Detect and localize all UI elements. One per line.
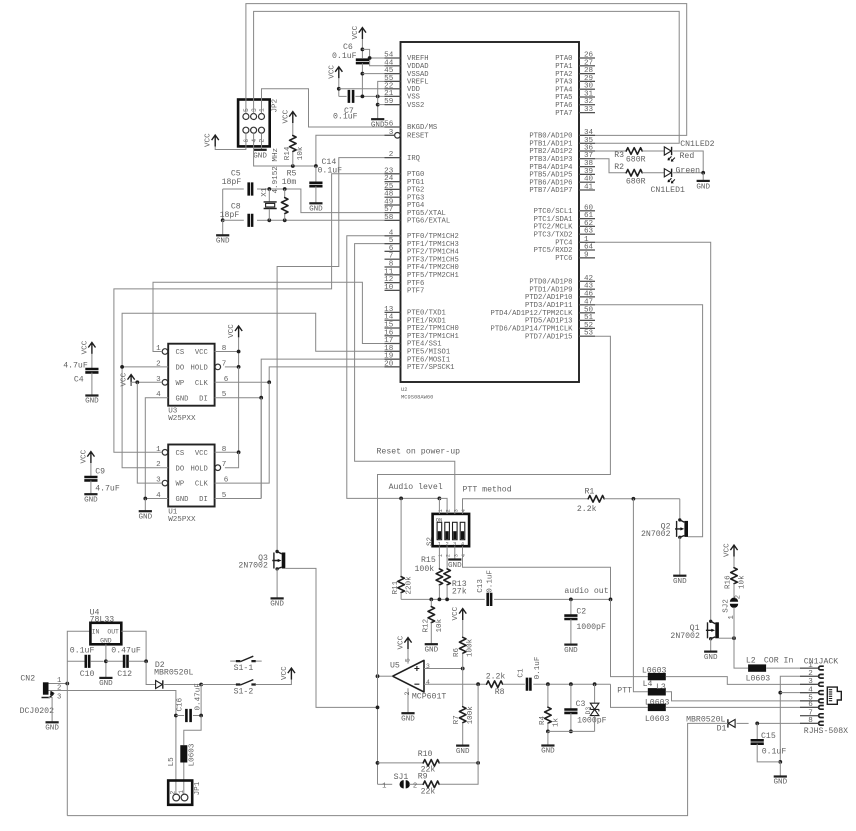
junction COR node (732, 636, 736, 640)
wire green LED cathode to gnd (673, 172, 703, 174)
svg-text:HOLD: HOLD (191, 365, 208, 373)
wire C1 output node (533, 683, 610, 685)
capacitor C7 0.1uF (338, 78, 340, 96)
svg-text:2.2k: 2.2k (486, 672, 506, 682)
svg-text:100k: 100k (467, 706, 475, 725)
CN1JACK pin 2 contact (800, 675, 819, 677)
svg-text:0.47uF: 0.47uF (111, 646, 141, 655)
solder jumper SJ2 (730, 598, 738, 608)
wire JP2 pin4 to reset node (254, 133, 316, 166)
VCC symbol above C9 (87, 452, 94, 463)
wire COR node to L2 (734, 638, 748, 668)
capacitor C6 0.1uF (361, 39, 363, 58)
wire Q1 drain to COR node (719, 637, 734, 639)
JP1 pin1 circle (181, 794, 188, 801)
svg-text:2: 2 (404, 692, 411, 696)
wire VREFL to ground net (378, 81, 385, 96)
svg-text:VCC: VCC (228, 324, 236, 338)
svg-text:PTD5/AD1P13: PTD5/AD1P13 (525, 318, 572, 326)
svg-text:4: 4 (251, 139, 258, 143)
wire audio rail to L4 (611, 599, 648, 676)
connector CN2 DCJ0202 (43, 682, 49, 694)
transistor Q1 2N7002 (706, 620, 719, 641)
wire PTF1 reset-on-powerup to S2 pin3 (355, 244, 455, 514)
svg-text:S1-1: S1-1 (234, 664, 254, 673)
wire U1 DI up to DI junction (260, 398, 262, 499)
wire VCC jog to VDDAD (362, 49, 384, 65)
svg-text:R4: R4 (539, 715, 547, 725)
wire U3 DO to MISO net (122, 366, 168, 368)
ground below Q3 (271, 597, 284, 599)
flash memory U1 W25PXX (168, 445, 214, 507)
wire U4 OUT (121, 631, 146, 661)
svg-text:MC9S08AW60: MC9S08AW60 (401, 395, 433, 401)
svg-text:680R: 680R (626, 156, 646, 165)
ground below C8 (216, 234, 229, 236)
wire L4 to jack pin3 (666, 677, 818, 685)
svg-text:PTB6/AD1P6: PTB6/AD1P6 (529, 179, 572, 187)
wire op-amp output (378, 675, 393, 677)
ground below U4 (99, 677, 112, 679)
junction VSS2 (376, 103, 380, 107)
svg-text:1: 1 (259, 108, 266, 112)
svg-text:1: 1 (728, 615, 736, 619)
wire MISO net U1 DO to PTE5 (122, 313, 400, 468)
svg-text:L0603: L0603 (746, 674, 771, 683)
VCC symbol above U3 pin8 (235, 326, 242, 337)
svg-text:0.1uF: 0.1uF (332, 52, 357, 61)
resistor R15 100k (436, 569, 443, 585)
junction U4 GND / caps (104, 659, 108, 663)
svg-text:C4: C4 (74, 376, 84, 385)
svg-text:CN1JACK: CN1JACK (804, 657, 838, 666)
U3 HOLD inversion circle (215, 364, 221, 370)
inductor L4 body (648, 673, 666, 680)
wire to C7 left (339, 95, 347, 97)
svg-text:PTE2/TPM1CH0: PTE2/TPM1CH0 (407, 325, 459, 333)
svg-text:PTC1/SDA1: PTC1/SDA1 (534, 216, 573, 224)
wire jack pin4 to ground net (780, 692, 817, 694)
svg-text:3: 3 (57, 693, 61, 701)
resistor R5 10m (284, 189, 286, 198)
svg-text:PTF1/TPM1CH3: PTF1/TPM1CH3 (407, 241, 459, 249)
svg-text:5: 5 (243, 108, 250, 112)
VCC symbol above VDD (335, 67, 342, 78)
wire SS1 net to U3 CS (153, 282, 401, 351)
wire PTC4 to Q1 (595, 242, 711, 621)
wire VCC down to U3 HOLD (238, 337, 240, 367)
wire S2 pin1 stub (438, 498, 440, 514)
junction C14 top (314, 164, 318, 168)
ground below C4 (85, 394, 98, 396)
svg-text:GND: GND (696, 184, 710, 192)
svg-text:IRQ: IRQ (407, 155, 420, 163)
junction C8 left / ground (221, 218, 225, 222)
svg-text:R7: R7 (453, 715, 461, 724)
wire C8 right (257, 219, 269, 221)
U1 CS inversion circle (162, 450, 168, 456)
svg-text:W25PXX: W25PXX (168, 415, 196, 423)
LED red CN1LED2 (664, 147, 675, 162)
svg-text:DI: DI (199, 395, 208, 403)
junction C2 (569, 598, 573, 602)
svg-text:VCC: VCC (328, 65, 336, 79)
inductor L2 body (748, 664, 766, 671)
svg-text:PTE7/SPSCK1: PTE7/SPSCK1 (407, 364, 454, 372)
wire L5 to JP1 pin1 (183, 763, 185, 795)
JP1 pin2 circle (173, 794, 180, 801)
svg-text:PTB5/AD1P5: PTB5/AD1P5 (529, 172, 572, 180)
svg-text:PTC0/SCL1: PTC0/SCL1 (534, 208, 573, 216)
svg-text:PTF3/TPM1CH5: PTF3/TPM1CH5 (407, 256, 459, 264)
wire U4 GND stub (105, 644, 107, 678)
CN1JACK pin 5 contact (800, 700, 819, 702)
svg-text:MBR0520L: MBR0520L (154, 669, 193, 678)
VCC symbol above C4 (88, 343, 95, 354)
capacitor C15 0.1uF (756, 723, 758, 740)
junction C6 bottom / VSSAD (361, 72, 365, 76)
svg-text:VSSAD: VSSAD (407, 71, 429, 79)
svg-text:4.9152 MHz: 4.9152 MHz (272, 148, 280, 194)
junction S2 pin1 (438, 497, 442, 501)
svg-text:Red: Red (680, 151, 695, 161)
svg-text:PTA3: PTA3 (555, 79, 572, 87)
svg-text:GND: GND (99, 680, 113, 688)
svg-text:GND: GND (216, 238, 230, 246)
svg-text:220k: 220k (406, 576, 414, 595)
wire C12 to OUT net (129, 660, 147, 662)
connector JP2 (BDM header) (238, 100, 270, 147)
wire S2 pin2 to R13 (446, 546, 448, 569)
CN1JACK pin 6 contact (800, 706, 819, 708)
junction R12 (429, 598, 433, 602)
svg-text:PTF2/TPM1CH4: PTF2/TPM1CH4 (407, 249, 459, 257)
CN1JACK pin 4 contact (800, 692, 819, 694)
junction C16 right (199, 714, 203, 718)
wire IRQ to Q3 (277, 158, 384, 552)
wire C16 right to L5 (184, 716, 201, 746)
wire U5 gnd pin (407, 688, 409, 713)
svg-text:0.1uF: 0.1uF (70, 646, 95, 655)
resistor R6 100k (459, 609, 466, 620)
svg-text:4.7uF: 4.7uF (63, 362, 88, 371)
svg-text:DO: DO (176, 365, 185, 373)
wire SJ2 to COR node (733, 607, 735, 638)
svg-text:4: 4 (461, 554, 467, 557)
svg-text:U2: U2 (401, 387, 407, 393)
CN1JACK pin stub overlay (800, 668, 819, 723)
wire C16 right (193, 715, 201, 717)
wire C16 left (176, 715, 184, 717)
svg-text:GND: GND (773, 779, 787, 787)
svg-text:2.2k: 2.2k (577, 504, 597, 514)
svg-text:C13: C13 (477, 579, 485, 593)
ground for jack shield (774, 775, 787, 777)
wire ground stem (377, 96, 379, 119)
svg-text:2: 2 (446, 509, 452, 512)
svg-text:VCC: VCC (282, 109, 290, 123)
wire JP2 pin5 to PTB0 (top outer loop) (246, 4, 687, 136)
ground below C9 (84, 493, 97, 495)
junction U1 VCC (237, 450, 241, 454)
svg-text:R16: R16 (724, 575, 732, 589)
wire op-amp plus input (424, 668, 463, 670)
wire WP net to U1 WP (137, 382, 162, 483)
junction CN2 pin1 / regulator input (65, 682, 69, 686)
svg-text:1000pF: 1000pF (577, 716, 607, 725)
ground below R7 (456, 744, 469, 746)
wire R2 to green LED (642, 172, 664, 174)
wire C5 left down to C8 left (222, 189, 224, 220)
wire JP2 pin6 to VCC (215, 133, 246, 149)
svg-text:R3: R3 (614, 151, 624, 160)
svg-text:R2: R2 (614, 163, 624, 172)
wire SJ1 to R9 (409, 783, 423, 785)
junction LED cathodes (701, 171, 705, 175)
ground below R4 (541, 744, 554, 746)
svg-text:VCC: VCC (195, 349, 209, 357)
svg-text:GND: GND (424, 646, 438, 654)
svg-text:W25PXX: W25PXX (168, 516, 196, 524)
wire CN2 pin3 to ground (49, 698, 53, 723)
wire U3 DI (215, 397, 262, 399)
svg-text:GND: GND (371, 122, 385, 130)
svg-text:GND: GND (673, 578, 687, 586)
svg-text:S2: S2 (427, 536, 435, 546)
svg-text:2: 2 (259, 139, 266, 143)
wire jog to VREFH (370, 57, 385, 59)
wire PTB2 to R3 (595, 150, 626, 152)
VCC symbol above U5 (404, 638, 411, 649)
svg-text:GND: GND (176, 496, 189, 504)
junction R10 row (376, 761, 380, 765)
svg-text:Reset on power-up: Reset on power-up (377, 448, 461, 457)
svg-text:4: 4 (426, 679, 430, 686)
U2 right pin stubs, numbers and names (579, 57, 595, 59)
svg-text:R15: R15 (421, 556, 436, 565)
RESET pin inversion circle (395, 133, 401, 139)
wire regulator input down to bottom rail (66, 684, 68, 816)
svg-text:VCC: VCC (398, 635, 406, 649)
svg-text:DO: DO (176, 465, 185, 473)
wire OUT net down to D2 (146, 661, 156, 684)
ground below Q1 (704, 650, 717, 652)
svg-text:6: 6 (243, 139, 250, 143)
svg-text:GND: GND (100, 637, 112, 644)
junction U3 HOLD (237, 365, 241, 369)
svg-text:PTE1/RXD1: PTE1/RXD1 (407, 317, 446, 325)
svg-text:VCC: VCC (121, 372, 129, 386)
wire L2 to jack pin1 (766, 667, 817, 669)
S2 slide 1 (437, 522, 442, 539)
junction U3 VCC (237, 350, 241, 354)
ground at CN2 (46, 721, 59, 723)
svg-text:VCC: VCC (81, 340, 89, 354)
junction R13 bottom (445, 598, 449, 602)
svg-text:C16: C16 (176, 697, 184, 711)
svg-text:PTG1: PTG1 (407, 179, 424, 187)
svg-text:0.1uF: 0.1uF (762, 748, 787, 757)
junction plus input / divider (461, 667, 465, 671)
svg-text:3: 3 (453, 554, 459, 557)
svg-text:VCC: VCC (195, 450, 209, 458)
wire jack pin2 to ground net (780, 676, 817, 762)
wire U3 HOLD to VCC net (225, 366, 239, 368)
junction R11 top (399, 497, 403, 501)
svg-text:C12: C12 (117, 670, 132, 679)
svg-text:PTF0/TPM1CH2: PTF0/TPM1CH2 (407, 233, 459, 241)
svg-text:2: 2 (734, 595, 742, 599)
svg-text:1k: 1k (552, 717, 560, 727)
ground below Q2 (673, 575, 686, 577)
MCU U2 MC9S08AW60 body (401, 42, 580, 382)
wire VCC to U3 WP (131, 382, 162, 386)
svg-text:10k: 10k (436, 618, 444, 632)
svg-text:1: 1 (438, 554, 444, 557)
wire to S1-2 (201, 684, 236, 686)
wire jack pin8 to D1 node (757, 722, 817, 724)
wire CN2 pin1 up to U4 IN (67, 631, 90, 683)
wire U5 VCC pin (407, 649, 409, 664)
svg-text:PTD2/AD1P10: PTD2/AD1P10 (525, 294, 572, 302)
svg-text:CLK: CLK (195, 380, 209, 388)
svg-text:PTT: PTT (617, 687, 632, 696)
svg-text:78L33: 78L33 (90, 615, 115, 624)
svg-text:PTE4/SS1: PTE4/SS1 (407, 341, 442, 349)
svg-text:PTE5/MISO1: PTE5/MISO1 (407, 349, 450, 357)
crystal X1 4.9152 MHz (268, 189, 270, 201)
svg-text:CS: CS (176, 349, 185, 357)
S2 slide 2 (445, 522, 450, 539)
svg-text:27k: 27k (452, 587, 467, 597)
svg-text:18pF: 18pF (220, 211, 240, 220)
svg-text:GND: GND (253, 152, 267, 160)
svg-text:PTG2: PTG2 (407, 187, 424, 195)
svg-text:1000pF: 1000pF (576, 623, 606, 632)
svg-text:CLK: CLK (195, 481, 209, 489)
svg-text:L4: L4 (643, 680, 653, 689)
junction VSS / VREFL / gnd stem (376, 95, 380, 99)
svg-text:2N7002: 2N7002 (238, 562, 268, 571)
svg-text:PTA1: PTA1 (555, 63, 572, 71)
svg-text:L3: L3 (656, 683, 666, 692)
resistor R11 220k (400, 498, 402, 576)
ground below R12 (425, 643, 438, 645)
svg-text:R12: R12 (422, 618, 430, 632)
U3 WP inversion circle (162, 380, 168, 386)
svg-text:CS: CS (176, 450, 185, 458)
resistor R12 10k (430, 599, 432, 606)
svg-text:100k: 100k (466, 638, 474, 657)
svg-text:R11: R11 (392, 580, 400, 594)
junction U4 OUT net (144, 659, 148, 663)
LED green CN1LED1 (664, 169, 675, 184)
wire C6 bottom down (361, 63, 363, 96)
wire op-amp output down to feedback (377, 676, 379, 784)
svg-text:VCC: VCC (352, 25, 360, 39)
junction VCC / VREFH jog (361, 48, 365, 52)
ground below U5 (401, 712, 414, 714)
svg-text:PTG0: PTG0 (407, 171, 424, 179)
wire C5 right to X1 top (257, 188, 269, 190)
svg-text:PTC5/RXD2: PTC5/RXD2 (534, 247, 573, 255)
junction R14 bottom (291, 164, 295, 168)
svg-text:PTD6/AD1P14/TPM1CLK: PTD6/AD1P14/TPM1CLK (491, 326, 574, 334)
svg-text:U5: U5 (390, 662, 400, 671)
svg-text:X1: X1 (261, 187, 269, 197)
wire S2 pin4 to PTT method net (463, 499, 589, 514)
svg-text:VSS: VSS (407, 94, 420, 102)
VCC symbol above R14 (289, 112, 296, 123)
wire crystal top to PTG5/XTAL (285, 189, 385, 213)
VCC symbol at JP2 pin6 (212, 135, 219, 146)
wire CLK net to U1 CLK (215, 382, 270, 483)
junction jack pin4 gnd tap (778, 691, 782, 695)
svg-text:1: 1 (438, 509, 444, 512)
wire PTB3 to R2 (595, 159, 626, 173)
wire PTF0 audio level net (347, 236, 440, 499)
svg-text:VSS2: VSS2 (407, 102, 424, 110)
svg-text:PTC2/MCLK: PTC2/MCLK (534, 224, 574, 232)
svg-text:JP1: JP1 (194, 781, 202, 795)
svg-text:VCC: VCC (281, 666, 289, 680)
svg-text:GND: GND (270, 601, 284, 609)
svg-text:IN: IN (92, 629, 100, 636)
svg-text:L2: L2 (746, 657, 756, 666)
wire U1 VCC pin8 (215, 451, 239, 453)
svg-text:L0603: L0603 (645, 715, 670, 724)
wire JP2 pin1 to BKGD/MS (262, 89, 385, 127)
svg-text:PTC6: PTC6 (555, 255, 572, 263)
wire S2 pin1 to R15 (438, 546, 440, 569)
CN1JACK pin 3 contact (800, 683, 819, 685)
transistor Q2 2N7002 (675, 518, 688, 539)
resistor R8 2.2k (487, 681, 503, 688)
svg-text:PTA6: PTA6 (555, 102, 572, 110)
svg-text:GND: GND (564, 647, 578, 655)
wire audio out rail left (401, 598, 485, 600)
junction R15 bottom (438, 598, 442, 602)
wire VCC net down to U1 pin8 (238, 367, 240, 452)
svg-text:C9: C9 (95, 468, 105, 477)
svg-text:OUT: OUT (107, 629, 119, 636)
U3 CS inversion circle (162, 349, 168, 355)
JP2 bottom pin circle 6 (243, 127, 249, 133)
VCC symbol above C6 (359, 28, 366, 39)
svg-text:MCP601T: MCP601T (412, 692, 446, 701)
svg-text:RESET: RESET (407, 133, 429, 141)
svg-text:C15: C15 (761, 732, 776, 741)
svg-text:GND: GND (401, 715, 415, 723)
svg-text:PTD3/AD1P11: PTD3/AD1P11 (525, 302, 572, 310)
JP2 top pin circle 3 (251, 114, 257, 120)
capacitor C14 0.1uF (315, 166, 317, 183)
wire crystal bottom to PTG6/EXTAL (269, 219, 384, 221)
resistor R1 2.2k (588, 496, 604, 503)
wire down to C16 right (200, 685, 202, 716)
capacitor C2 1000pF (570, 599, 572, 615)
diode D3 transient suppressor (594, 684, 596, 703)
wire JP2 pin3 to PTB1 (top inner loop) (254, 11, 680, 143)
junction CLK net (267, 380, 271, 384)
svg-text:2: 2 (57, 684, 61, 692)
svg-text:WP: WP (176, 481, 185, 489)
U1 WP inversion circle (162, 480, 168, 486)
junction MISO / U3 DO (120, 365, 124, 369)
resistor R14 10k (292, 122, 294, 136)
switch S1-1 (unused pole) (230, 660, 236, 662)
wire R8 to C1 (503, 683, 525, 685)
